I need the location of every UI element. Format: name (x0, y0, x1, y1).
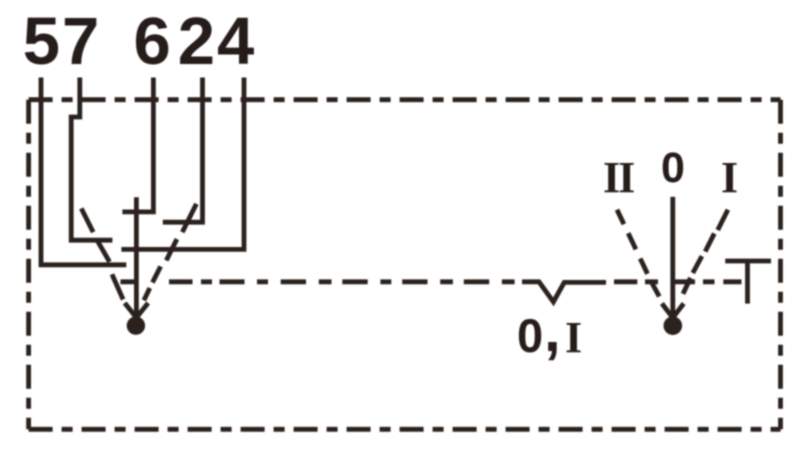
svg-text:,: , (544, 297, 561, 364)
svg-text:II: II (603, 153, 634, 202)
svg-text:I: I (721, 153, 738, 202)
svg-text:6: 6 (134, 4, 171, 79)
svg-text:57: 57 (23, 4, 102, 79)
svg-text:0: 0 (517, 309, 543, 362)
svg-text:0: 0 (661, 144, 685, 192)
svg-text:24: 24 (178, 4, 257, 79)
svg-text:I: I (565, 313, 582, 362)
